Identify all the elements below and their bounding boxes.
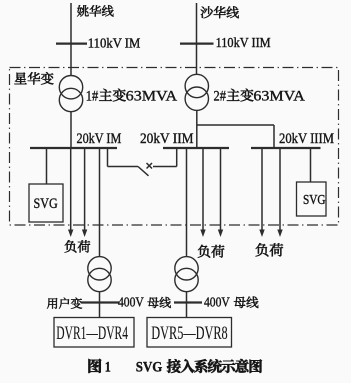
load feeder arrow (IIIM bus, left)	[261, 149, 263, 231]
busbar 20kV IIM	[163, 147, 229, 149]
wire: tie to 20kV IIM bus	[153, 166, 177, 168]
DVR group 2 box DVR5-DVR8	[147, 318, 232, 348]
wire: branch from T2 to 20kV IIIM bus	[197, 124, 275, 126]
wire: 20kV IM bus to user transformer T3	[99, 148, 101, 257]
substation boundary box (dash-dot)	[10, 68, 339, 226]
wire: T4 to DVR2 box through 400V bus	[186, 292, 188, 318]
load feeder arrow (IM bus, right)	[84, 149, 86, 231]
svg-text:20kV IM: 20kV IM	[77, 131, 122, 147]
transformer 1#主变 63MVA	[59, 76, 82, 99]
label 负荷 (IIIM loads)	[256, 243, 269, 256]
svg-text:20kV IIIM: 20kV IIIM	[279, 131, 334, 147]
wire: 20kV IM bus to SVG1	[46, 148, 48, 184]
svg-text:SVG: SVG	[303, 192, 326, 207]
wire: incoming feeder line 沙华线	[196, 3, 198, 75]
busbar 400V 母线 (left)	[81, 301, 119, 303]
user transformer T3 用户变	[88, 257, 111, 280]
figure caption 图1 SVG接入系统示意图	[88, 359, 101, 373]
svg-text:SVG: SVG	[34, 196, 59, 212]
svg-text:1#: 1#	[86, 88, 99, 104]
wire: T2 to 20kV IIM bus	[196, 110, 198, 148]
svg-text:DVR5—DVR8: DVR5—DVR8	[151, 324, 227, 344]
busbar 110kV IM (short bar)	[56, 42, 87, 44]
label: line name 沙华线	[201, 6, 213, 18]
busbar 20kV IM	[30, 147, 117, 149]
tie switch open-contact mark x	[147, 163, 153, 169]
label 负荷 (IIM loads)	[198, 245, 210, 258]
svg-text:110kV IM: 110kV IM	[88, 35, 141, 50]
tie switch blade (open)	[138, 167, 149, 176]
label: substation name 星华变	[14, 73, 26, 85]
svg-text:63MVA: 63MVA	[253, 88, 305, 104]
svg-text:110kV IIM: 110kV IIM	[216, 35, 271, 50]
busbar 110kV IIM (short bar)	[180, 42, 214, 44]
wire: incoming feeder line 姚华线	[70, 3, 72, 76]
busbar 400V 母线 (right)	[174, 301, 202, 303]
wire: T1 to 20kV IM bus	[70, 111, 72, 148]
load feeder arrow (IIM bus, left)	[202, 149, 204, 231]
svg-text:DVR1—DVR4: DVR1—DVR4	[56, 324, 128, 344]
wire: 20kV IIIM bus to SVG2	[310, 148, 312, 182]
busbar 20kV IIIM	[251, 147, 321, 149]
wire: 20kV IIM bus to user transformer T4	[186, 148, 188, 257]
DVR group 1 box DVR1-DVR4	[54, 318, 134, 348]
label 用户变	[47, 298, 57, 309]
svg-text:SVG: SVG	[136, 360, 163, 376]
svg-text:63MVA: 63MVA	[126, 88, 178, 104]
transformer 2#主变 63MVA	[185, 74, 208, 97]
wire: tie from 20kV IM bus	[107, 148, 109, 167]
SVG compensator 1 (box)	[29, 184, 63, 222]
svg-text:1: 1	[105, 360, 111, 376]
user transformer T4	[175, 257, 198, 280]
wire: T3 to DVR1 box through 400V bus	[99, 292, 101, 318]
svg-text:400V: 400V	[204, 294, 230, 309]
SVG compensator 2 (box)	[297, 182, 327, 216]
label: line name 姚华线	[77, 5, 89, 16]
svg-text:2#: 2#	[214, 88, 227, 104]
label 负荷 (IM loads)	[65, 240, 77, 252]
load feeder arrow (IIM bus, right)	[220, 149, 222, 231]
load feeder arrow (IM bus, left)	[70, 149, 72, 231]
svg-text:20kV IIM: 20kV IIM	[140, 131, 194, 147]
load feeder arrow (IIIM bus, right)	[279, 149, 281, 231]
svg-text:400V: 400V	[118, 294, 144, 309]
